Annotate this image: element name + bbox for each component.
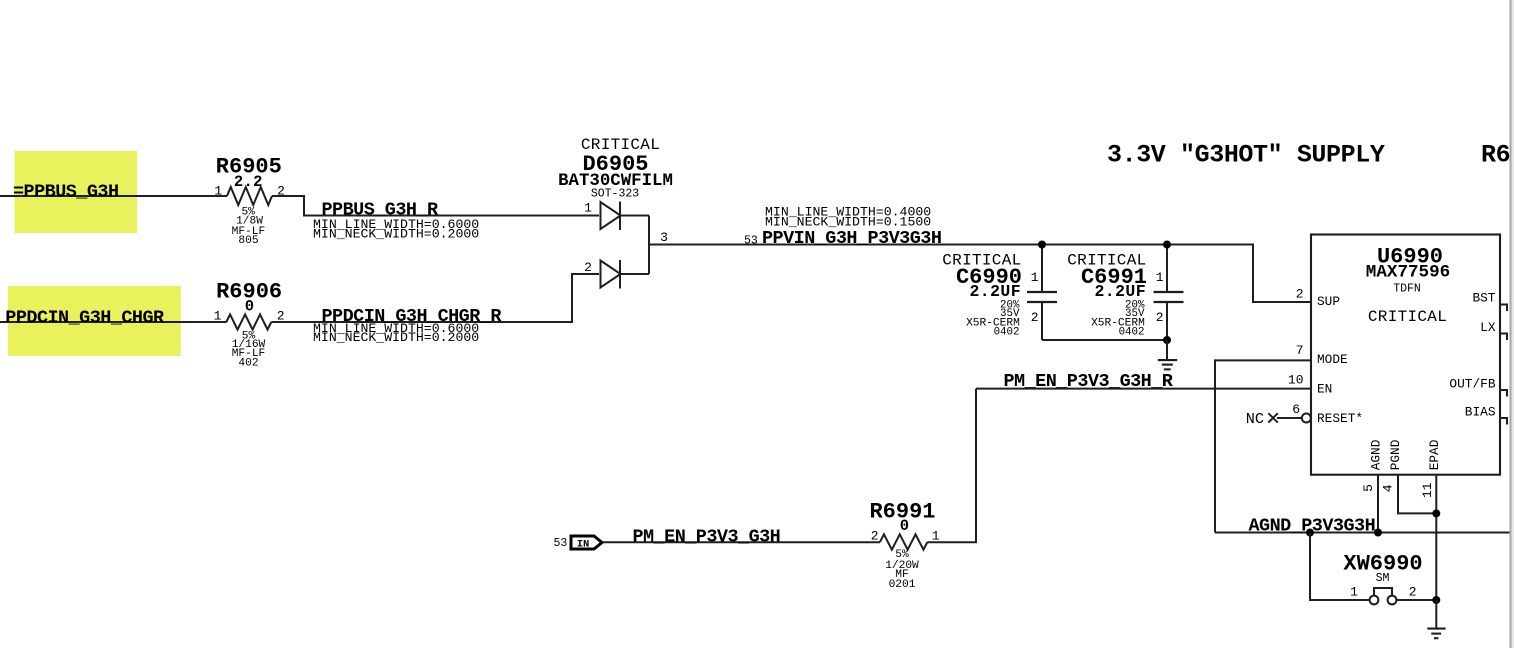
svg-text:IN: IN <box>577 539 590 551</box>
pin stub LX <box>1500 334 1507 341</box>
resistor R6991 <box>869 500 939 592</box>
wire =PPBUS_G3H to R6905 pin 1 <box>0 195 227 197</box>
svg-text:1: 1 <box>214 184 222 199</box>
pin PGND to EPAD <box>1398 475 1436 514</box>
highlight box PPDCIN_G3H_CHGR <box>8 286 181 356</box>
junction dot C6990 top <box>1038 241 1046 249</box>
svg-text:10: 10 <box>1288 373 1304 388</box>
svg-text:MODE: MODE <box>1317 352 1348 367</box>
wire PPVIN_G3H_P3V3G3H <box>649 245 1311 303</box>
jumper XW6990 <box>1343 552 1422 605</box>
svg-text:2.2UF: 2.2UF <box>969 282 1021 301</box>
resistor R6905 <box>214 154 285 247</box>
svg-text:=PPBUS_G3H: =PPBUS_G3H <box>13 182 119 203</box>
svg-text:PPVIN_G3H_P3V3G3H: PPVIN_G3H_P3V3G3H <box>762 228 941 249</box>
junction dot C6991 top <box>1163 241 1171 249</box>
pin stub BST <box>1500 305 1507 312</box>
svg-text:0: 0 <box>245 298 254 316</box>
capacitor C6991 <box>1067 245 1183 341</box>
svg-text:0402: 0402 <box>1119 326 1145 338</box>
svg-text:7: 7 <box>1296 343 1304 358</box>
svg-text:0201: 0201 <box>889 579 916 591</box>
svg-text:MIN_NECK_WIDTH=0.2000: MIN_NECK_WIDTH=0.2000 <box>313 330 479 345</box>
capacitor C6990 <box>942 245 1057 341</box>
svg-text:3: 3 <box>660 230 668 245</box>
wire R6991 pin 1 up to EN net <box>927 389 976 543</box>
svg-text:EN: EN <box>1317 381 1332 396</box>
svg-text:402: 402 <box>238 357 258 369</box>
svg-text:2: 2 <box>1031 310 1039 325</box>
wire XW6990 pin 2 to EPAD column <box>1396 599 1436 601</box>
svg-text:SUP: SUP <box>1317 294 1340 309</box>
svg-text:PM_EN_P3V3_G3H_R: PM_EN_P3V3_G3H_R <box>1004 371 1174 392</box>
svg-text:BST: BST <box>1472 290 1495 305</box>
junction dot PGND/EPAD <box>1432 509 1440 517</box>
highlight box =PPBUS_G3H <box>15 151 138 233</box>
svg-text:1: 1 <box>1156 270 1164 285</box>
page edge grey line <box>1510 0 1512 648</box>
svg-text:NC: NC <box>1246 410 1264 428</box>
svg-text:2: 2 <box>584 260 592 275</box>
svg-text:SOT-323: SOT-323 <box>591 187 639 200</box>
svg-text:2: 2 <box>1409 584 1417 599</box>
svg-text:2.2UF: 2.2UF <box>1094 282 1146 301</box>
svg-text:RESET*: RESET* <box>1317 411 1363 426</box>
svg-text:1: 1 <box>214 309 222 324</box>
pin AGND to net <box>1377 475 1379 533</box>
svg-text:EPAD: EPAD <box>1427 439 1442 470</box>
wire C6990 bottom to C6991 bottom <box>1042 339 1167 341</box>
svg-text:2.2: 2.2 <box>234 173 263 191</box>
wire PPDCIN_G3H_CHGR to R6906 pin 1 <box>0 321 227 323</box>
svg-text:53: 53 <box>744 235 758 248</box>
svg-text:5: 5 <box>1361 484 1376 492</box>
svg-text:PM_EN_P3V3_G3H: PM_EN_P3V3_G3H <box>633 527 781 548</box>
svg-text:1: 1 <box>932 528 940 543</box>
ground under C6991 <box>1158 340 1177 369</box>
pin stub OUT/FB <box>1500 390 1507 397</box>
junction dot XW branch <box>1306 529 1314 537</box>
svg-text:TDFN: TDFN <box>1393 283 1421 296</box>
svg-text:3.3V "G3HOT" SUPPLY: 3.3V "G3HOT" SUPPLY <box>1107 140 1385 169</box>
svg-text:LX: LX <box>1480 320 1496 335</box>
svg-text:6: 6 <box>1292 402 1300 417</box>
svg-text:CRITICAL: CRITICAL <box>1368 308 1447 326</box>
svg-text:SM: SM <box>1376 572 1390 585</box>
wire IN port to R6991 pin 2 <box>602 541 880 543</box>
svg-text:53: 53 <box>554 537 568 550</box>
wire R6905 pin 2 to D6905 pin 1 <box>272 196 599 216</box>
resistor R6906 <box>214 280 285 370</box>
svg-text:2: 2 <box>1296 287 1304 302</box>
svg-text:BIAS: BIAS <box>1465 404 1496 419</box>
wire AGND net to XW6990 pin 1 <box>1310 533 1370 601</box>
junction dot EPAD/XW <box>1432 596 1440 604</box>
svg-text:OUT/FB: OUT/FB <box>1449 377 1495 392</box>
svg-text:MIN_NECK_WIDTH=0.2000: MIN_NECK_WIDTH=0.2000 <box>313 226 479 241</box>
svg-text:PPDCIN_G3H_CHGR: PPDCIN_G3H_CHGR <box>5 308 165 329</box>
svg-text:805: 805 <box>238 235 258 247</box>
pin EPAD down <box>1435 475 1437 600</box>
svg-text:2: 2 <box>1156 310 1164 325</box>
svg-text:4: 4 <box>1380 484 1395 492</box>
svg-text:0: 0 <box>900 517 909 535</box>
IC U6990 MAX77596 <box>1288 235 1500 499</box>
wire MODE to AGND <box>1215 360 1311 532</box>
svg-text:2: 2 <box>871 528 879 543</box>
port IN PM_EN_P3V3_G3H <box>554 536 603 551</box>
svg-text:11: 11 <box>1420 482 1435 498</box>
svg-text:0402: 0402 <box>994 326 1020 338</box>
junction dot C6991 bottom <box>1163 336 1171 344</box>
svg-text:1: 1 <box>1350 584 1358 599</box>
svg-text:R6: R6 <box>1481 140 1510 169</box>
svg-text:AGND: AGND <box>1369 439 1384 470</box>
wire AGND_P3V3G3H <box>1215 532 1510 534</box>
wire EN PM_EN_P3V3_G3H_R <box>976 388 1311 390</box>
junction dot AGND net <box>1374 529 1382 537</box>
no-connect RESET* <box>1246 410 1311 428</box>
pin stub BIAS <box>1500 418 1507 425</box>
svg-text:PGND: PGND <box>1388 439 1403 470</box>
svg-text:MAX77596: MAX77596 <box>1366 263 1450 283</box>
svg-text:1: 1 <box>584 201 592 216</box>
diode D6905 <box>558 136 673 289</box>
wire R6906 pin 2 to D6905 pin 2 <box>272 274 600 322</box>
ground under XW6990 <box>1427 600 1445 638</box>
svg-text:1: 1 <box>1031 270 1039 285</box>
